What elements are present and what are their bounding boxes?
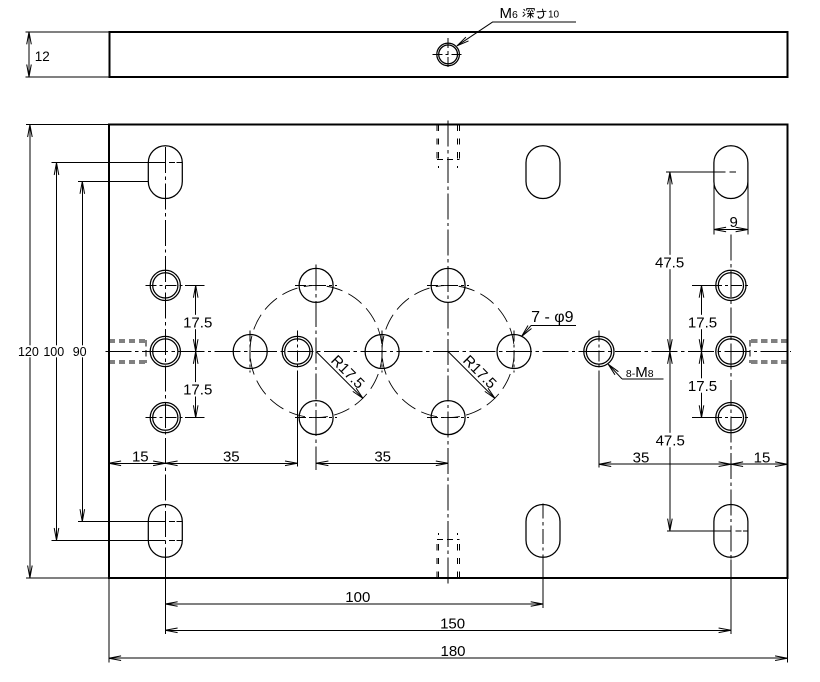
slot 9x14 bottom left (148, 505, 182, 558)
dimension 17.5 right extension lines (692, 284, 716, 286)
dimension 17.5 right upper (701, 285, 703, 351)
hidden tapped hole M6 in top edge (436, 125, 438, 162)
dimension 9 slot width (728, 215, 739, 229)
slot 9x14 top right (714, 146, 748, 199)
dimension 120 overall height (29, 125, 31, 578)
slot 9x14 bottom right (714, 505, 748, 558)
slot 9x14 top center (526, 146, 560, 199)
hidden tapped hole M6 in right edge (750, 339, 787, 341)
dimension 180 bottom (109, 657, 788, 659)
kana さ drawn as strokes (537, 9, 546, 13)
horizontal centerline through middle hole row (106, 351, 792, 353)
svg-text:10: 10 (548, 10, 560, 21)
centerline crosshair of M6 hole (433, 53, 464, 55)
svg-text:35: 35 (633, 450, 650, 467)
svg-text:90: 90 (73, 345, 87, 359)
svg-text:15: 15 (132, 449, 149, 466)
kanji 深 (depth) drawn as strokes (523, 9, 534, 18)
main view plate outline (180x120) (109, 125, 788, 578)
crosshair horizontals bottom hole row (145, 417, 185, 419)
tapped hole M8 left column top (150, 270, 180, 300)
tapped hole M6 (top view) (437, 43, 460, 66)
label 7-φ9 with leader (531, 324, 576, 326)
dimension 90 extension lines (78, 181, 148, 183)
top view plate outline (180x12) (110, 32, 788, 77)
svg-text:180: 180 (440, 643, 465, 660)
dimension 12 (plate thickness) (28, 32, 30, 77)
svg-text:7 - φ9: 7 - φ9 (531, 309, 573, 326)
hole φ9 right of bolt circle 2 (497, 335, 531, 369)
svg-text:17.5: 17.5 (183, 314, 212, 331)
dimension 17.5 left upper (195, 285, 197, 351)
dimension 100 bottom extension line at slot (542, 559, 544, 608)
crosshair vertical M8 middle-left + extension line (296, 331, 298, 373)
hole φ9 bottom of bolt circle 2 (431, 401, 465, 435)
slot 9x14 top left (148, 146, 182, 199)
leader line for M6 label (493, 21, 576, 23)
dimension 12 extension lines (25, 31, 109, 33)
svg-text:9: 9 (730, 214, 738, 231)
svg-text:17.5: 17.5 (183, 382, 212, 399)
dimension 9 slot width extension lines (713, 182, 715, 234)
right column centerline (730, 235, 732, 560)
dimension 35 bottom right (599, 463, 731, 465)
bolt circle R17.5 left (dashed) (250, 285, 382, 417)
dimension 17.5 left extension lines (185, 284, 205, 286)
dimension 100 bottom (165, 603, 543, 605)
dimension 100 slot outer span (56, 163, 58, 541)
tapped hole M8 left column bottom (150, 403, 180, 433)
dimension 47.5 lower (669, 352, 671, 531)
svg-text:17.5: 17.5 (688, 378, 717, 395)
svg-text:100: 100 (43, 345, 64, 359)
dimension 17.5 left lower (195, 352, 197, 418)
vertical centerline of plate (447, 121, 449, 587)
dimension 47.5 extension lines (666, 171, 714, 173)
dimension 90 slot inner span (81, 182, 83, 522)
svg-text:35: 35 (223, 449, 240, 466)
svg-text:35: 35 (374, 449, 391, 466)
dimension 150 bottom (165, 629, 731, 631)
hole φ9 left of bolt circle 1 (233, 335, 267, 369)
bottom center slot centerline (542, 504, 544, 560)
dimension 17.5 right lower (701, 352, 703, 418)
tapped hole M8 right column middle (716, 336, 746, 366)
dimension 15 bottom right (731, 463, 788, 465)
svg-text:47.5: 47.5 (655, 254, 684, 271)
hole φ9 bottom of bolt circle 1 (299, 401, 333, 435)
bolt circle R17.5 right (dashed) (382, 285, 514, 417)
dimension 100 left extension lines (cross top/bottom slots) (52, 162, 166, 164)
svg-text:12: 12 (35, 49, 50, 64)
tapped hole M8 middle left (282, 336, 312, 366)
tapped hole M8 right column bottom (716, 403, 746, 433)
right column extension line to bottom dims (730, 560, 732, 634)
label 8-M8 with leader (622, 378, 663, 380)
slot horizontal centerline top right slot (short) (714, 171, 725, 173)
hole φ9 top of bolt circle 2 (431, 268, 465, 302)
dimension 15 bottom left (109, 462, 166, 464)
svg-text:120: 120 (18, 345, 39, 359)
left bolt-circle centerline vertical (315, 265, 317, 471)
slot 9x14 bottom center (526, 505, 560, 558)
hole φ9 between bolt circles (365, 335, 399, 369)
dimension 120 extension lines (26, 124, 109, 126)
svg-text:47.5: 47.5 (656, 432, 685, 449)
dimension 35 bolt circle centers (316, 462, 448, 464)
svg-text:150: 150 (440, 616, 465, 633)
bottom center slot extension line to 100 dim (542, 560, 544, 609)
crosshair vertical M8 middle-right + extension line (598, 331, 600, 373)
svg-text:15: 15 (754, 450, 771, 467)
left column extension line to bottom dims (164, 560, 166, 634)
left column centerline (164, 147, 166, 560)
radius leader R17.5 right bolt circle (448, 352, 495, 399)
crosshair verticals middle row holes (249, 331, 251, 373)
crosshair horizontals top hole row (145, 284, 185, 286)
radius leader R17.5 left bolt circle (316, 352, 363, 399)
tapped hole M8 right column top (716, 270, 746, 300)
svg-text:100: 100 (345, 589, 370, 606)
svg-text:17.5: 17.5 (688, 314, 717, 331)
hidden tapped hole M6 in bottom edge (436, 540, 438, 578)
hidden tapped hole M6 in left edge (109, 339, 146, 341)
dimension 47.5 upper (669, 172, 671, 351)
dimension 35 left columns (165, 462, 297, 464)
dimension 180 extension lines (108, 578, 110, 663)
hole φ9 top of bolt circle 1 (299, 268, 333, 302)
tapped hole M8 middle right (584, 336, 614, 366)
tapped hole M8 left column middle (150, 336, 180, 366)
